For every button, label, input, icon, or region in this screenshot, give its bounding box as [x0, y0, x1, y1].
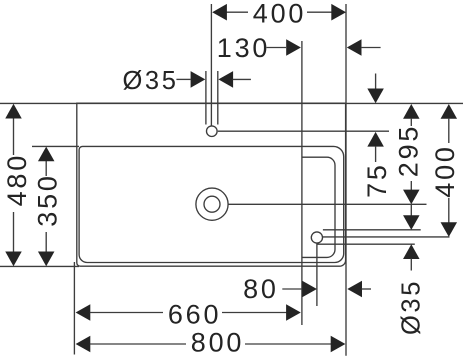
svg-text:400: 400: [253, 0, 306, 29]
extension line x=316.9 overflow vertical: [316, 244, 318, 307]
svg-text:660: 660: [168, 300, 221, 330]
dimension 660 bottom: [76, 300, 301, 330]
dimension 80 bottom: [243, 274, 371, 304]
dimension diameter 35 tap: [123, 67, 251, 95]
extension line x=346 right edge vertical: [345, 4, 347, 356]
dimension 75 right: [362, 74, 392, 198]
washbasin inner rim: [79, 146, 344, 262]
svg-text:400: 400: [430, 144, 460, 197]
dimension 480 left: [2, 104, 32, 266]
dimension diameter 35 overflow: [397, 205, 425, 335]
svg-text:Ø35: Ø35: [397, 279, 425, 335]
extension line x=74.4 left bottom vertical: [73, 262, 75, 355]
dimension 800 bottom: [76, 328, 346, 358]
extension line x=211.4 tap centre vertical: [210, 4, 212, 126]
leader overflow centre line: [323, 236, 450, 238]
drain outer: [196, 188, 228, 220]
leader tap hole centre line: [218, 130, 389, 132]
svg-text:480: 480: [2, 153, 32, 206]
dimension 400 top: [212, 0, 346, 29]
svg-text:Ø35: Ø35: [123, 67, 179, 95]
dimension 130 top: [217, 33, 381, 63]
svg-text:800: 800: [191, 328, 244, 358]
leader overflow top line: [323, 229, 421, 231]
svg-text:80: 80: [243, 274, 279, 304]
svg-text:130: 130: [217, 33, 270, 63]
extension line top edge (y=103.4, full width): [0, 102, 463, 104]
leader drain centre line: [228, 203, 427, 205]
extension line x=217.8 tap right edge: [217, 71, 219, 125]
svg-text:295: 295: [393, 124, 423, 177]
svg-text:75: 75: [362, 162, 392, 198]
extension line bottom edge left: [0, 265, 79, 267]
svg-text:350: 350: [33, 173, 63, 226]
overflow hole: [311, 232, 322, 243]
dimension 400 right: [430, 104, 460, 237]
extension line x=205.9 tap left edge: [205, 71, 207, 125]
dimension 295 right: [393, 104, 423, 204]
washbasin outer outline: [77, 103, 346, 266]
extension line basin rim top left: [32, 145, 79, 147]
tap hole: [207, 126, 218, 137]
leader overflow bottom line: [317, 243, 415, 245]
dimension 350 left: [33, 147, 63, 267]
drain inner: [204, 196, 220, 212]
extension line x=301.9 shelf edge vertical: [301, 41, 303, 325]
shelf outline right: [302, 157, 335, 257]
